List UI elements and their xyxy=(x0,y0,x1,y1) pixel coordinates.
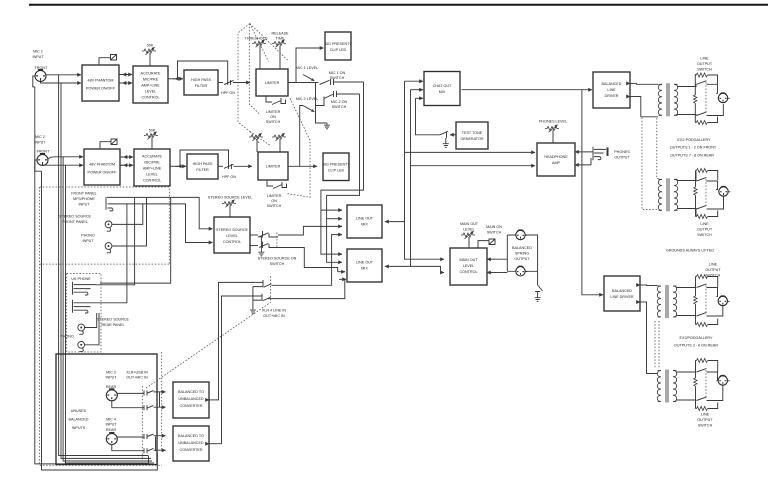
label HPF ON ch2 xyxy=(222,175,236,179)
box limiter ch1 xyxy=(256,69,288,96)
connector 6.35mm jack rear 2 xyxy=(73,300,97,313)
connector phono R front xyxy=(105,243,112,253)
svg-text:HEADPHONE: HEADPHONE xyxy=(544,155,568,159)
svg-text:HIGH PASS: HIGH PASS xyxy=(191,78,211,82)
wire mic1 shield bus down xyxy=(35,87,149,464)
box line out mix 1 xyxy=(347,205,382,238)
svg-text:EX2-PODGALLERY: EX2-PODGALLERY xyxy=(677,138,711,142)
switch main on xyxy=(478,239,495,248)
svg-text:CONTROL: CONTROL xyxy=(459,270,477,274)
svg-text:MIC 3: MIC 3 xyxy=(106,371,116,375)
wire normalling link conv2 xyxy=(155,437,157,452)
wire driver B out 2 xyxy=(640,302,658,374)
resistor cell1 bottom xyxy=(695,117,717,125)
svg-text:50K: 50K xyxy=(149,129,156,133)
connector XLR output 4 xyxy=(718,376,730,386)
label main on switch xyxy=(486,225,502,235)
svg-text:SPRING: SPRING xyxy=(515,252,529,256)
svg-text:GENERATOR: GENERATOR xyxy=(460,137,483,141)
wire normalling link conv1 xyxy=(159,393,161,408)
label mic 2 on switch xyxy=(331,100,348,109)
svg-text:HIGH PASS: HIGH PASS xyxy=(193,162,213,166)
svg-text:PHONES LEVEL: PHONES LEVEL xyxy=(539,120,567,124)
svg-text:XLR 4 LINE IN: XLR 4 LINE IN xyxy=(262,309,287,313)
wire mic2 pin3 to phantom box xyxy=(43,163,84,165)
svg-text:OUTPUT: OUTPUT xyxy=(514,257,530,261)
wire conv1 out riser xyxy=(209,282,263,400)
label unused balanced inputs xyxy=(69,409,89,430)
svg-text:FRONT: FRONT xyxy=(37,150,50,154)
svg-text:LIMITER: LIMITER xyxy=(266,110,281,114)
svg-text:AMP: AMP xyxy=(552,161,561,165)
svg-text:ON: ON xyxy=(270,115,276,119)
switch xlr4 line B xyxy=(253,279,346,301)
svg-text:SIG PRESENT?: SIG PRESENT? xyxy=(325,42,352,46)
wire mic2 bus to mixes xyxy=(327,94,360,262)
box 48V phantom power on/off ch2 xyxy=(84,149,120,185)
svg-text:MAIN ON: MAIN ON xyxy=(486,225,502,229)
box line out mix 2 xyxy=(347,249,382,282)
resistor cell3 bottom xyxy=(696,319,718,327)
dashed gang to threshold pot ch1 xyxy=(250,24,269,62)
potentiometer threshold ch2 xyxy=(249,133,263,152)
svg-text:GROUNDS ALWAYS LIFTED: GROUNDS ALWAYS LIFTED xyxy=(666,249,714,253)
label stereo source level xyxy=(208,196,252,200)
svg-text:SWITCH: SWITCH xyxy=(697,68,712,72)
potentiometer threshold ch1 xyxy=(245,37,268,70)
svg-text:PHONO: PHONO xyxy=(81,234,95,238)
connector 6.35mm jack rear 1 xyxy=(73,282,97,295)
wire mic4 pin3 with contact xyxy=(112,444,166,453)
wire mic2 cold bus down xyxy=(66,165,155,463)
label limiter on switch ch1 xyxy=(266,110,281,124)
transformer T1 xyxy=(658,83,677,116)
wire T3 secondary to cell3 xyxy=(676,285,696,317)
svg-text:UNUSED: UNUSED xyxy=(71,409,87,413)
connector 3.5mm jack front xyxy=(106,197,134,211)
svg-text:UNBALANCED: UNBALANCED xyxy=(178,397,204,401)
wire phono rear risers xyxy=(85,313,99,345)
svg-text:LINE OUT: LINE OUT xyxy=(356,261,374,265)
dashed gang xlr4 switches xyxy=(269,276,271,300)
wire conv2 out riser xyxy=(209,296,262,444)
resistor cell1 shunt xyxy=(694,74,697,123)
switch mic2 on xyxy=(316,91,360,106)
svg-text:MIC/PRE: MIC/PRE xyxy=(144,161,160,165)
svg-text:SWITCH: SWITCH xyxy=(698,424,713,428)
wire mic1 bus to mixes xyxy=(321,82,364,254)
switch cell1 pole 1 xyxy=(697,81,718,94)
wire stereo out A to line mix1 xyxy=(278,226,342,235)
svg-text:OUTPUT: OUTPUT xyxy=(705,268,721,272)
potentiometer mic2 level xyxy=(303,106,314,112)
switch stereo source on B xyxy=(250,242,278,249)
label MIC 2 INPUT xyxy=(34,135,50,154)
svg-text:LEVEL: LEVEL xyxy=(145,90,156,94)
label balanced main outputs xyxy=(512,246,532,261)
transformer T4 xyxy=(657,370,676,403)
wire mix2 right feed and main in2 xyxy=(385,266,444,272)
svg-text:MIC 1: MIC 1 xyxy=(33,50,43,54)
wire stereo bus L xyxy=(134,197,213,228)
svg-text:CHAT OUT: CHAT OUT xyxy=(433,84,452,88)
svg-text:OUTPUT: OUTPUT xyxy=(697,62,713,66)
svg-text:INPUT: INPUT xyxy=(105,376,117,380)
wire driver A out 2 xyxy=(630,97,658,117)
svg-text:MIX: MIX xyxy=(361,267,368,271)
svg-text:50K: 50K xyxy=(147,44,154,48)
svg-text:MIX: MIX xyxy=(361,223,368,227)
wire limiter1 out xyxy=(288,82,316,84)
wire mic1 shield tail xyxy=(33,76,35,87)
box high pass filter ch2 xyxy=(187,154,218,179)
svg-text:INPUT: INPUT xyxy=(78,203,90,207)
svg-text:OUTPUTS 7 - 8 ON REAR: OUTPUTS 7 - 8 ON REAR xyxy=(670,153,714,157)
svg-text:MIC/PRE: MIC/PRE xyxy=(143,78,159,82)
switch cell3 pole 2 xyxy=(697,306,723,317)
svg-text:MAIN OUT: MAIN OUT xyxy=(459,258,478,262)
label xlr+usb in out+mic in xyxy=(126,371,148,380)
svg-text:PHONES: PHONES xyxy=(614,150,630,154)
resistor cell3 shunt xyxy=(694,277,697,325)
resistor cell2 bottom xyxy=(696,211,718,219)
svg-text:48V PHANTOM: 48V PHANTOM xyxy=(89,163,115,167)
connector XLR J2 mic2 input xyxy=(37,154,48,166)
svg-text:CONVERTER: CONVERTER xyxy=(179,404,202,408)
dashed gang cell1 xyxy=(705,82,707,114)
svg-text:AMP+LINE: AMP+LINE xyxy=(141,84,160,88)
wire mic2 bus tap mix1 xyxy=(327,218,342,220)
svg-text:MIC 2 ON: MIC 2 ON xyxy=(331,100,348,104)
svg-text:STEREO SOURCE LEVEL: STEREO SOURCE LEVEL xyxy=(208,196,252,200)
box sig present clip LED ch2 xyxy=(323,153,350,181)
dashed enclosure rear panel xyxy=(67,274,101,353)
connector headphone jack xyxy=(593,147,608,161)
connector XLR main out 1 xyxy=(516,230,528,240)
label mic 3 input xyxy=(105,371,117,390)
svg-text:MIC 2 LEVEL: MIC 2 LEVEL xyxy=(296,97,318,101)
wire mic1 bus tap mix1 xyxy=(321,209,342,211)
svg-text:TIME: TIME xyxy=(276,37,285,41)
svg-text:LEVEL: LEVEL xyxy=(463,264,474,268)
svg-text:STEREO SOURCE ON: STEREO SOURCE ON xyxy=(258,257,297,261)
svg-text:FILTER: FILTER xyxy=(196,168,209,172)
wire mic2 pin2 to phantom box xyxy=(48,157,83,159)
dashed gang cell3 xyxy=(705,286,707,315)
svg-text:POWER ON/OFF: POWER ON/OFF xyxy=(88,171,118,175)
wire headphone feed R xyxy=(411,165,536,167)
label phones level xyxy=(539,120,567,124)
box chat out mix xyxy=(424,72,460,106)
box limiter ch2 xyxy=(258,152,288,180)
label phono input xyxy=(81,234,95,244)
box balanced line driver A xyxy=(593,72,630,108)
switch limiter on ch2 xyxy=(267,180,287,189)
svg-text:LIMITER: LIMITER xyxy=(266,165,281,169)
wire preamp out ch1 xyxy=(168,78,183,80)
potentiometer mic1 level xyxy=(303,75,314,81)
switch HPF on ch1 xyxy=(218,80,250,85)
svg-text:FRONT PANEL: FRONT PANEL xyxy=(62,220,87,224)
ground lift ground xyxy=(535,296,541,302)
ground xlr4 switches xyxy=(250,308,256,314)
svg-text:LINE: LINE xyxy=(701,413,710,417)
svg-text:SWITCH: SWITCH xyxy=(270,262,285,266)
svg-text:DRIVER: DRIVER xyxy=(605,94,619,98)
wire phantom to preamp pair ch1 xyxy=(119,75,132,84)
svg-text:MAIN OUT: MAIN OUT xyxy=(460,222,479,226)
label mic 1 level xyxy=(296,66,318,70)
svg-text:MIC 4: MIC 4 xyxy=(106,418,116,422)
svg-text:CONTROL: CONTROL xyxy=(141,96,159,100)
wire limiter2 riser to mic2 level pot xyxy=(300,106,303,167)
svg-text:INPUT: INPUT xyxy=(32,55,44,59)
svg-text:LINE: LINE xyxy=(709,263,718,267)
switch mic1 on xyxy=(316,79,364,85)
dashed gang stereo switches xyxy=(276,233,278,249)
svg-text:CONVERTER: CONVERTER xyxy=(179,448,202,452)
label EX2 outputs front xyxy=(670,138,717,157)
svg-text:LINE OUT: LINE OUT xyxy=(356,217,374,221)
label line output switch 2 xyxy=(697,222,713,237)
box 48V phantom power on/off ch1 xyxy=(82,65,119,101)
switch cell1 pole 2 xyxy=(697,104,724,116)
label line output switch 1 xyxy=(697,57,713,72)
svg-text:MIC 2: MIC 2 xyxy=(35,135,45,139)
wire front jack normal to rear jack xyxy=(100,197,171,283)
switch phantom on/off ch2 xyxy=(100,139,117,149)
connector XLR main out 2 xyxy=(516,266,528,276)
box test tone generator xyxy=(456,122,488,149)
dashed vertical inner xyxy=(161,352,163,449)
connector phono L rear xyxy=(78,324,85,334)
wire test tone bus vertical xyxy=(416,98,441,135)
dashed enclosure front panel inputs xyxy=(40,187,170,465)
dashed link T1 to T2 b xyxy=(657,118,660,179)
switch cell3 pole 1 xyxy=(697,284,718,297)
resistor cell2 shunt xyxy=(694,171,697,217)
label mic 1 on switch xyxy=(329,71,346,80)
box stereo source level control xyxy=(214,217,250,253)
wire rear jack2 riser xyxy=(96,204,127,303)
wire rear jack1 riser xyxy=(96,197,135,284)
svg-text:CONTROL: CONTROL xyxy=(223,240,241,244)
svg-text:BALANCED: BALANCED xyxy=(602,82,622,86)
box balanced to unbalanced converter 1 xyxy=(173,382,209,418)
label stereo source front panel xyxy=(59,215,92,225)
label line output switch 4 xyxy=(697,413,713,428)
wire phantom to preamp pair ch2 xyxy=(120,157,133,165)
svg-text:SWITCH: SWITCH xyxy=(330,76,345,80)
label mic 4 input xyxy=(105,418,117,433)
wire headphone amp outputs xyxy=(575,152,593,165)
dashed gang limiter switches xyxy=(287,98,310,197)
label stereo source rear panel xyxy=(97,318,130,328)
wire mic1 cold bus down to rear xyxy=(61,83,151,458)
svg-text:OUTPUT: OUTPUT xyxy=(697,418,713,422)
svg-text:OUTPUTS 3 - 6 ON REAR: OUTPUTS 3 - 6 ON REAR xyxy=(674,344,718,348)
svg-text:ACCURATE: ACCURATE xyxy=(140,72,161,76)
svg-text:REAR: REAR xyxy=(106,428,117,432)
svg-text:BALANCED: BALANCED xyxy=(512,246,532,250)
wire driver A out 1 xyxy=(630,82,658,85)
svg-text:LINE: LINE xyxy=(607,88,616,92)
wire stereo switch common to ground xyxy=(258,237,261,250)
wire stereo bus R xyxy=(124,204,213,243)
switch ground lift xyxy=(535,285,543,296)
wire mix1 right feed xyxy=(385,221,405,223)
svg-text:INPUT: INPUT xyxy=(105,423,117,427)
svg-text:HPF ON: HPF ON xyxy=(222,175,236,179)
connector XLR J3 mic3 xyxy=(106,389,117,401)
svg-text:OUTPUTS 1 - 2 ON FRONT: OUTPUTS 1 - 2 ON FRONT xyxy=(670,145,717,149)
svg-text:CLIP LED: CLIP LED xyxy=(330,48,347,52)
box headphone amp xyxy=(537,143,575,176)
transformer T2 xyxy=(658,178,677,211)
svg-text:MP3/PHONE: MP3/PHONE xyxy=(73,197,95,201)
dashed gang left parallelogram xyxy=(238,24,250,132)
label grounds always lifted xyxy=(666,249,714,253)
svg-text:48V PHANTOM: 48V PHANTOM xyxy=(88,79,114,83)
ground test tone switch xyxy=(443,142,449,148)
transformer T3 xyxy=(657,285,676,318)
svg-text:BALANCED TO: BALANCED TO xyxy=(178,434,204,438)
switch HPF on ch2 xyxy=(218,164,252,169)
ground mic level pots xyxy=(324,123,330,129)
connector XLR output 2 xyxy=(719,187,731,197)
wire mic3 pin3 with contact xyxy=(112,400,166,410)
svg-text:MIX: MIX xyxy=(439,90,446,94)
svg-text:UNBALANCED: UNBALANCED xyxy=(178,441,204,445)
connector phono L front xyxy=(105,221,112,231)
potentiometer main out level xyxy=(461,231,475,248)
switch cell4 pole 2 xyxy=(697,386,723,401)
svg-text:PHONO: PHONO xyxy=(60,335,74,339)
label stereo source on switch xyxy=(258,257,297,267)
resistor cell4 top xyxy=(696,359,718,373)
wire stereo out B to line mix2 xyxy=(278,248,345,272)
svg-text:STEREO SOURCE: STEREO SOURCE xyxy=(59,215,92,219)
svg-text:SIG PRESENT?: SIG PRESENT? xyxy=(323,163,350,167)
svg-text:REAR PANEL: REAR PANEL xyxy=(101,323,124,327)
wire main outs to XLRs xyxy=(487,235,516,273)
wire mic4 pin2 with contact xyxy=(117,434,166,439)
ground stereo switch xyxy=(258,250,264,256)
connector XLR J1 mic1 input xyxy=(35,70,46,82)
box accurate mic pre level control ch1 xyxy=(133,66,168,103)
dashed gang to ch2 pots xyxy=(250,132,271,147)
wire phono L riser xyxy=(112,204,143,225)
svg-text:SWITCH: SWITCH xyxy=(266,120,281,124)
svg-text:BALANCED: BALANCED xyxy=(69,418,89,422)
svg-text:ACCURATE: ACCURATE xyxy=(142,155,163,159)
svg-text:LEVEL: LEVEL xyxy=(146,173,157,177)
svg-text:LINE: LINE xyxy=(700,222,709,226)
wire test tone arrow xyxy=(450,134,456,136)
svg-text:STEREO SOURCE: STEREO SOURCE xyxy=(97,318,130,322)
svg-text:LINE: LINE xyxy=(700,57,709,61)
svg-text:SWITCH: SWITCH xyxy=(267,204,282,208)
svg-text:MIC 1 LEVEL: MIC 1 LEVEL xyxy=(296,66,318,70)
svg-text:HPF ON: HPF ON xyxy=(221,91,235,95)
wire driver B out 1 xyxy=(640,284,658,287)
dashed gang cell2 xyxy=(705,179,707,207)
svg-text:AMP+LINE: AMP+LINE xyxy=(143,167,162,171)
resistor cell3 top xyxy=(696,275,718,288)
wire T1 secondary to cell1 xyxy=(677,84,696,115)
switch test tone xyxy=(440,131,448,141)
svg-text:OUTPUT: OUTPUT xyxy=(614,156,630,160)
potentiometer stereo source level xyxy=(222,200,236,217)
svg-text:CLIP LED: CLIP LED xyxy=(328,169,345,173)
box sig present clip LED ch1 xyxy=(325,32,352,60)
switch limiter on ch1 xyxy=(266,96,286,105)
wire main bus L vertical xyxy=(405,81,445,259)
wire phono R riser xyxy=(112,197,147,246)
svg-text:CONTROL: CONTROL xyxy=(143,179,161,183)
wire mic1 hot bus down to rear xyxy=(59,75,148,456)
svg-text:BALANCED TO: BALANCED TO xyxy=(178,390,204,394)
wire chat feed to driver B riser xyxy=(582,90,603,295)
svg-text:INPUT: INPUT xyxy=(34,141,46,145)
box high pass filter ch1 xyxy=(184,70,218,95)
resistor cell2 top xyxy=(696,169,718,181)
box balanced line driver B xyxy=(604,276,640,311)
dashed link T1 to T2 a xyxy=(642,118,657,210)
wire chat out to line driver A xyxy=(462,89,593,91)
wire mic2 shield tail xyxy=(35,160,42,171)
svg-text:LIMITER: LIMITER xyxy=(267,194,282,198)
connector XLR output 3 xyxy=(718,296,730,306)
connector XLR output 1 xyxy=(718,93,730,103)
label EX2 outputs rear xyxy=(674,336,718,348)
wire mic2 shield bus down and bottom bus xyxy=(42,171,158,470)
wire hpf bypass ch2 xyxy=(180,150,229,166)
wire headphone feed L xyxy=(405,151,536,153)
svg-text:RELEASE: RELEASE xyxy=(271,32,289,36)
svg-text:FILTER: FILTER xyxy=(195,84,208,88)
svg-text:BALANCED: BALANCED xyxy=(612,289,632,293)
dashed gang xlr normalling xyxy=(141,386,143,460)
svg-text:UK PHONE: UK PHONE xyxy=(71,277,91,281)
wire XLR grounds bus xyxy=(525,235,538,285)
svg-text:STEREO SOURCE: STEREO SOURCE xyxy=(216,228,249,232)
potentiometer 50K ch1 xyxy=(142,44,156,67)
wire mic1 pin3 to phantom box xyxy=(41,79,82,83)
connector phono R rear xyxy=(78,341,85,351)
potentiometer release time ch2 xyxy=(272,133,286,152)
box accurate mic pre level control ch2 xyxy=(134,149,170,186)
potentiometer release time ch1 xyxy=(271,32,289,70)
svg-text:SWITCH: SWITCH xyxy=(487,231,502,235)
wire mic2 hot bus down xyxy=(63,157,152,461)
svg-text:INPUTS: INPUTS xyxy=(72,426,86,430)
wire hpf bypass ch1 xyxy=(178,61,228,80)
box unused balanced inputs enclosure xyxy=(56,354,157,465)
potentiometer 50K ch2 xyxy=(144,129,158,150)
svg-text:LINE DRIVER: LINE DRIVER xyxy=(610,295,633,299)
switch phantom on/off ch1 xyxy=(99,55,117,66)
label line output switch 3 xyxy=(705,263,721,278)
switch stereo source on A xyxy=(250,231,278,238)
svg-text:SWITCH: SWITCH xyxy=(332,105,347,109)
label limiter on switch ch2 xyxy=(267,194,282,208)
svg-text:TEST TONE: TEST TONE xyxy=(462,131,483,135)
svg-text:LIMITER: LIMITER xyxy=(265,81,280,85)
svg-text:EX2/PODGALLERY: EX2/PODGALLERY xyxy=(680,336,713,340)
wire T4 secondary to cell4 xyxy=(676,361,696,409)
svg-text:POWER ON/OFF: POWER ON/OFF xyxy=(86,87,116,91)
